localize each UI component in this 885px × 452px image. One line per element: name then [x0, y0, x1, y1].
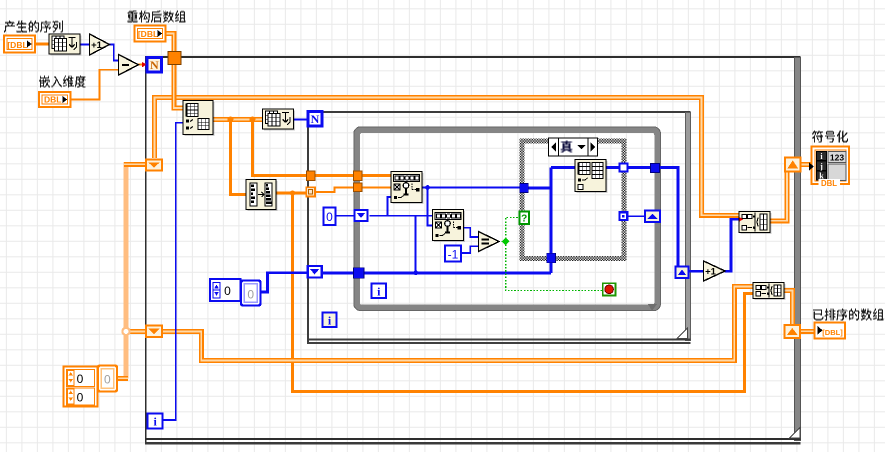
- tunnel while array in: [354, 268, 365, 279]
- svg-text:0: 0: [247, 288, 254, 302]
- while-loop corner arrow: [648, 304, 657, 311]
- wire embed-dim to subtract: [70, 70, 119, 100]
- case selector text 真: [561, 141, 573, 153]
- tunnel orange while 2: [354, 183, 363, 192]
- init junction ring: [122, 328, 129, 335]
- shift register loop2 right: [676, 267, 689, 279]
- svg-text:+1: +1: [705, 267, 717, 278]
- wire equal out to selector: [499, 218, 520, 242]
- wire case interior in: [527, 187, 551, 190]
- wire init branch to SR2: [124, 329, 147, 334]
- node build-array 2: [754, 284, 785, 300]
- coercion dot build-array1: [739, 217, 743, 222]
- for-loop outer bottom border: [145, 438, 801, 440]
- wire equal out to stop: [506, 241, 603, 290]
- wire i-term riser: [163, 123, 184, 420]
- iteration terminal outer: [148, 414, 163, 429]
- svg-text:N: N: [150, 58, 159, 72]
- wire build-array2 out: [784, 291, 793, 326]
- node equal: [479, 232, 500, 252]
- svg-text:0: 0: [77, 391, 84, 405]
- node index-array 1: [392, 173, 423, 204]
- case selector terminal ?: [519, 212, 529, 225]
- case selector right arrow: [591, 143, 596, 152]
- wire while SR to index arrays: [370, 215, 434, 217]
- indicator reconstructed-array [DBL]: [135, 26, 166, 42]
- node increment +1 a: [90, 34, 110, 55]
- control embed-dimension DBL: [39, 92, 71, 107]
- wire array-size1 to +1 (blue): [80, 44, 90, 46]
- label embed-dimension: [39, 76, 86, 88]
- wire case interior vertical: [549, 168, 552, 254]
- tunnel case right mid: [620, 212, 628, 220]
- wire build-array1 out to tunnel: [770, 172, 788, 221]
- node increment +1 b: [704, 261, 726, 281]
- tunnel symbolize out: [785, 158, 801, 172]
- tunnel orange loop2: [307, 171, 316, 181]
- wire branch up to index-array1 in3: [388, 197, 392, 216]
- wire index-array2 to equal: [463, 228, 479, 237]
- wire branch to sort node: [231, 120, 247, 195]
- constant cluster frame 0: [98, 366, 117, 392]
- wire index-array1 out: [422, 187, 520, 189]
- wire +1 to build-array1: [725, 219, 740, 271]
- svg-text:DBL: DBL: [821, 179, 837, 188]
- junction dot: [290, 190, 295, 195]
- wire sort out inside loop2: [315, 187, 354, 192]
- wire const-pair to loop2 shift register: [261, 273, 309, 292]
- for-loop inner left border: [307, 111, 309, 344]
- wire case tunnel2 to while SR right: [627, 215, 646, 217]
- label symbolize: [812, 131, 848, 143]
- svg-text:0: 0: [224, 284, 231, 298]
- tunnel case right top: [620, 164, 628, 172]
- svg-text:-1: -1: [448, 248, 459, 262]
- wire produced-sequence to array-size: [34, 43, 50, 46]
- svg-text:j: j: [819, 162, 823, 171]
- label produced-sequence: [4, 21, 63, 33]
- for-loop outer fold corner: [790, 428, 801, 439]
- node sort-1d-array: [247, 181, 277, 211]
- control produced-sequence [DBL]: [4, 36, 35, 53]
- tunnel orange while: [354, 171, 363, 181]
- svg-text:0: 0: [104, 373, 111, 387]
- constant frame 0 blue: [241, 281, 261, 306]
- wire case bottom tunnel drop: [550, 262, 553, 273]
- label reconstructed-array: [127, 11, 186, 23]
- wire branch to index-array: [253, 120, 392, 176]
- shift register while right: [645, 211, 660, 223]
- wire while out to loop2 SR right: [659, 168, 679, 267]
- wire sorted tunnel to indicator: [800, 329, 816, 334]
- node array-size 2: [264, 110, 295, 130]
- junction dot blue: [425, 185, 430, 190]
- for-loop inner bottom border: [307, 339, 691, 341]
- constant cluster init: [64, 367, 98, 407]
- constant -1: [445, 246, 461, 262]
- iteration terminal loop2: [323, 313, 337, 328]
- stop condition terminal: [603, 283, 616, 295]
- wire 2D-array top run: [155, 98, 740, 216]
- svg-text:[DBL: [DBL: [7, 40, 27, 50]
- for-loop outer top border: [145, 56, 801, 58]
- node subtract: [119, 55, 139, 76]
- wire symbolize tunnel to indicator: [801, 162, 814, 167]
- svg-text:?: ?: [521, 214, 527, 225]
- node array-subset: [184, 102, 214, 136]
- wire sort branch down-right: [293, 193, 754, 392]
- case selector dropdown arrow: [578, 145, 586, 150]
- shift register outer left 1: [146, 160, 162, 171]
- for-loop inner fold corner: [677, 328, 688, 339]
- case structure border: [522, 141, 624, 259]
- svg-text:0: 0: [326, 210, 333, 224]
- wire while lower array run: [364, 271, 551, 274]
- svg-text:123: 123: [830, 153, 844, 163]
- node replace-array-subset: [576, 161, 607, 193]
- wire init to SR1: [124, 162, 147, 167]
- wire array-subset out: [213, 117, 263, 122]
- shift register loop2 left: [308, 266, 322, 278]
- node build-array 1: [740, 213, 771, 234]
- indicator sorted-array [DBL]: [815, 323, 846, 339]
- tunnel indexing loop2: [306, 187, 315, 196]
- wire -1 to equal: [461, 246, 479, 253]
- coercion arrow at subtract input: [118, 58, 122, 63]
- junction dot: [250, 117, 256, 123]
- wire zero-const to while SR: [336, 215, 355, 217]
- indicator symbolize 2D-array: [812, 147, 850, 185]
- wire +1 to subtract (blue): [109, 45, 119, 61]
- tunnel while array out: [651, 163, 660, 172]
- svg-text:0: 0: [77, 372, 84, 386]
- wire loop2 SR right to +1: [688, 270, 704, 273]
- tunnel 2D-array outer top: [168, 52, 181, 65]
- wire case interior to replace node: [551, 166, 576, 169]
- wire loop2 SR to while tunnel: [322, 271, 355, 274]
- case selector left arrow: [551, 143, 556, 152]
- count terminal N inner: [308, 112, 322, 127]
- svg-text:N: N: [311, 112, 320, 126]
- wire shift-register init vertical: [124, 162, 129, 378]
- wire 2D-array tunnel to array-subset: [174, 62, 184, 108]
- wire init to cluster: [114, 376, 128, 381]
- junction dot: [228, 117, 234, 123]
- for-loop inner right border: [686, 113, 691, 341]
- case selector divider: [558, 139, 560, 156]
- shift register while left: [355, 210, 368, 221]
- svg-text:[DBL]: [DBL]: [822, 328, 843, 337]
- wire subtract to N: [138, 64, 148, 66]
- svg-text:DBL: DBL: [44, 95, 61, 105]
- while-loop border: [357, 130, 658, 308]
- constant numeric loop2-init: [210, 279, 241, 301]
- coercion arrow at N input: [142, 62, 146, 67]
- tunnel case bottom: [547, 253, 556, 263]
- wire 2D-array tunnel riser: [165, 34, 174, 60]
- node array-size 1: [50, 35, 81, 55]
- wire branch to index-array2: [428, 188, 434, 226]
- iteration terminal while: [372, 284, 387, 299]
- constant 0 while: [324, 208, 336, 226]
- count terminal N outer: [147, 58, 162, 73]
- wire while tunnel2 to index-array in2: [362, 186, 392, 188]
- tunnel sorted out: [785, 325, 801, 338]
- svg-text:+1: +1: [91, 40, 103, 51]
- for-loop outer left border: [145, 56, 147, 444]
- for-loop inner top border: [307, 111, 691, 113]
- wire 2D-array from left shift-register-2: [161, 286, 754, 360]
- for-loop outer right border: [795, 58, 801, 441]
- label sorted-array: [813, 309, 884, 321]
- wire replace out to tunnels: [606, 166, 652, 169]
- shift register outer left 2: [146, 326, 162, 338]
- wire junction riser: [415, 216, 417, 273]
- wire sort out to loop2: [276, 192, 307, 195]
- junction dot blue: [413, 270, 418, 275]
- node index-array 2: [434, 211, 465, 242]
- junction diamond green: [502, 237, 510, 245]
- svg-text:[DBL: [DBL: [138, 29, 158, 39]
- tunnel case left: [520, 183, 529, 192]
- wire array-size2 to N2: [294, 119, 309, 121]
- case selector label box: [549, 138, 598, 156]
